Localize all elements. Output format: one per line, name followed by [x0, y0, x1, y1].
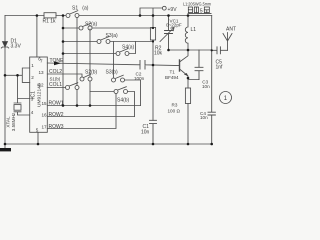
wire S3 vertical	[113, 42, 115, 79]
wire S2b to S4b	[90, 91, 114, 93]
svg-text:L1: L1	[191, 27, 197, 33]
junction pin5 bottom bus	[37, 143, 40, 146]
capacitor VC1	[165, 16, 173, 51]
wire S3b right riser	[125, 80, 141, 106]
capacitor C5	[212, 47, 228, 54]
wire feeder vertical	[62, 16, 64, 106]
wire S2a right	[92, 27, 153, 29]
svg-text:17: 17	[42, 124, 48, 129]
svg-text:5: 5	[36, 127, 39, 132]
svg-text:1nf: 1nf	[216, 65, 224, 71]
wire COL1	[47, 87, 65, 89]
svg-text:S2(a): S2(a)	[85, 22, 98, 28]
svg-text:1: 1	[31, 63, 34, 68]
svg-text:15: 15	[42, 101, 48, 106]
arrow VC1	[160, 28, 174, 42]
junction feeder S3a	[62, 40, 65, 43]
capacitor C4	[208, 50, 215, 144]
junction feeder S4a	[62, 52, 65, 55]
junction feeder S2a	[62, 27, 65, 30]
wire COL2	[47, 74, 82, 77]
crystal XTAL 3.58MHz	[14, 75, 30, 115]
wire left vertical	[4, 16, 6, 145]
svg-text:100n: 100n	[134, 76, 145, 81]
svg-text:TONE: TONE	[50, 58, 64, 64]
wire S1 vertical	[76, 18, 78, 106]
wire TONE	[47, 63, 140, 65]
svg-text:10n: 10n	[200, 115, 208, 120]
svg-text:L1:20SWG,5mm: L1:20SWG,5mm	[183, 1, 211, 6]
junction S1 vertical ROW1	[76, 104, 79, 107]
svg-text:ROW1: ROW1	[49, 101, 64, 107]
junction feeder top bus	[62, 14, 65, 17]
switch S2a	[79, 23, 92, 30]
switch S1b	[66, 83, 80, 90]
svg-text:1: 1	[224, 96, 228, 102]
svg-text:3.3V: 3.3V	[11, 44, 22, 50]
wire pin5	[37, 132, 39, 144]
wire S3a stub	[63, 41, 97, 43]
svg-text:S3(b): S3(b)	[106, 70, 119, 76]
svg-text:13: 13	[39, 70, 45, 75]
junction R2 bottom terminal	[152, 40, 154, 42]
diode D1	[1, 42, 8, 49]
svg-text:ANT: ANT	[226, 27, 236, 33]
junction +9V drop top bus	[139, 14, 142, 17]
resistor R2	[152, 16, 154, 121]
svg-text:T1: T1	[170, 69, 176, 74]
junction crystal drop	[16, 74, 19, 77]
antenna	[223, 33, 232, 51]
wire ROW1	[47, 105, 140, 107]
junction C1 bottom bus	[152, 143, 155, 146]
wire bottom bus	[5, 143, 212, 145]
junction left bus bottom	[4, 143, 7, 146]
node circle 1	[220, 92, 232, 104]
switch S4a	[116, 49, 129, 56]
svg-text:S4(a): S4(a)	[122, 45, 135, 51]
ground	[4, 144, 6, 148]
svg-text:10k: 10k	[154, 51, 163, 57]
junction base node	[152, 64, 155, 67]
switch S1a	[66, 11, 79, 18]
junction C5 right column	[211, 49, 213, 51]
inductor L1	[185, 16, 188, 51]
svg-text:XTAL: XTAL	[6, 116, 11, 128]
wire S4b right to ROW2 riser	[128, 92, 135, 117]
svg-text:S4(b): S4(b)	[117, 98, 130, 104]
junction left bus pins 1-2	[4, 74, 7, 77]
wire emitter tap	[188, 78, 199, 80]
junction pin6 top bus	[36, 14, 39, 17]
wire right vertical top	[211, 16, 213, 51]
wire S4a stub	[63, 53, 116, 55]
switch S3a	[97, 37, 110, 44]
arrow TONE	[54, 61, 61, 65]
wire tank bus	[169, 49, 212, 51]
svg-text:COL1: COL1	[49, 82, 62, 88]
svg-text:BF494: BF494	[165, 75, 179, 80]
wire S3a right	[110, 41, 153, 43]
svg-text:10n: 10n	[202, 84, 210, 89]
svg-text:0~22pF: 0~22pF	[166, 22, 182, 27]
svg-text:R3: R3	[172, 103, 178, 108]
wire S2 vertical	[89, 29, 91, 106]
svg-text:3.58MHz: 3.58MHz	[11, 112, 16, 131]
wire S4a right riser	[129, 42, 136, 54]
wire ROW2	[47, 116, 134, 118]
junction R3 bottom bus	[187, 143, 190, 146]
junction VC1 top bus	[167, 14, 170, 17]
wire pins 1-2 bracket	[5, 68, 30, 82]
label L1 spec cn	[188, 7, 209, 13]
svg-text:4: 4	[31, 110, 34, 115]
junction R2 top terminal	[152, 27, 154, 29]
capacitor C1	[150, 120, 157, 144]
wire ROW3	[47, 94, 116, 129]
svg-text:ROW2: ROW2	[49, 112, 64, 118]
svg-text:S3(a): S3(a)	[106, 33, 119, 39]
capacitor C2	[140, 61, 180, 70]
transistor T1 BF494	[179, 60, 181, 71]
junction R2 top bus	[152, 14, 155, 17]
wire +9V feed	[140, 8, 162, 16]
IC IC1 UM91214B box	[30, 57, 48, 132]
svg-text:2: 2	[31, 75, 34, 80]
junction L1 collector tank bus	[187, 49, 190, 52]
svg-text:COL2: COL2	[49, 69, 62, 75]
svg-text:7: 7	[40, 59, 43, 64]
label IC1	[31, 91, 37, 99]
svg-text:+9V: +9V	[168, 7, 178, 13]
junction S2 vertical ROW1	[89, 104, 92, 107]
resistor R1	[44, 13, 56, 18]
svg-text:16: 16	[42, 112, 48, 117]
svg-text:S2(b): S2(b)	[85, 70, 98, 76]
wire S2a stub	[63, 27, 79, 29]
switch S3b	[112, 75, 125, 82]
junction feeder ROW1	[62, 104, 65, 107]
wire top bus	[5, 15, 212, 17]
junction C4 bottom bus	[210, 143, 213, 146]
svg-text:R1 1k: R1 1k	[43, 19, 57, 25]
svg-text:ROW3: ROW3	[49, 124, 64, 130]
junction L1 top bus	[187, 14, 190, 17]
switch S2b	[80, 74, 92, 81]
svg-text:S1(b): S1(b)	[50, 77, 61, 82]
junction VC1 tank bus	[167, 49, 170, 52]
svg-text:S1 (a): S1 (a)	[72, 6, 89, 12]
wire pin6	[36, 16, 38, 58]
switch S4b	[114, 87, 128, 94]
capacitor C3	[195, 50, 203, 80]
label XTAL	[6, 116, 11, 128]
svg-text:10n: 10n	[141, 130, 150, 136]
junction emitter node	[187, 77, 190, 80]
terminal +9V	[162, 6, 166, 10]
arrow emitter	[184, 73, 188, 76]
svg-text:100 Ω: 100 Ω	[168, 108, 181, 113]
resistor R3	[187, 78, 189, 144]
svg-text:12: 12	[39, 83, 45, 88]
svg-text:3: 3	[31, 96, 34, 101]
